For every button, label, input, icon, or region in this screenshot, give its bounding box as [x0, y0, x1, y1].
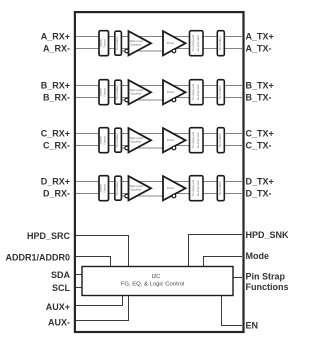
- svg-text:Termination: Termination: [218, 181, 222, 196]
- bubble (driver A): [172, 49, 176, 53]
- wire SDA: [76, 274, 83, 276]
- svg-text:Tx swing and: Tx swing and: [191, 180, 195, 197]
- svg-text:Termination: Termination: [218, 36, 222, 51]
- svg-text:Termination: Termination: [218, 133, 222, 148]
- svg-text:Tx swing and: Tx swing and: [191, 132, 195, 149]
- wire A_RX- input: [76, 48, 130, 50]
- svg-text:Wide-range: Wide-range: [130, 184, 144, 188]
- svg-text:FG, EQ, & Logic Control: FG, EQ, & Logic Control: [121, 282, 185, 288]
- block: Rx signal detect (D lane): [99, 176, 109, 201]
- svg-text:SDA: SDA: [51, 270, 71, 280]
- wire D_TX- output: [163, 193, 242, 195]
- block: Rx signal detect (B lane): [99, 80, 109, 105]
- block: Rx termination (D lane): [115, 176, 122, 200]
- svg-text:Termination: Termination: [115, 85, 119, 100]
- wire SCL: [76, 287, 83, 289]
- svg-text:D_TX-: D_TX-: [246, 189, 272, 199]
- wire D_RX+ to D_TX+: [76, 181, 242, 183]
- wire C_RX+ to C_TX+: [76, 133, 242, 135]
- wire HPD_SRC: [76, 236, 129, 267]
- block: Tx termination (A lane): [217, 31, 224, 56]
- svg-text:ADDR1/ADDR0: ADDR1/ADDR0: [5, 253, 70, 263]
- svg-text:Detect: Detect: [103, 39, 107, 48]
- wire Pin Strap Functions: [233, 277, 242, 279]
- wire AUX-: [76, 296, 129, 321]
- svg-text:B_RX-: B_RX-: [43, 93, 70, 103]
- wire B_RX+ to B_TX+: [76, 85, 242, 87]
- block: Tx swing and de-emphasis (D lane): [190, 176, 204, 201]
- bubble (driver B): [172, 98, 176, 102]
- svg-text:Equalizer: Equalizer: [131, 140, 142, 144]
- op-amp: equalizer (A lane): [129, 31, 152, 55]
- wire AUX+: [76, 296, 123, 306]
- svg-text:Detect: Detect: [103, 184, 107, 193]
- wire B_RX- input: [76, 97, 130, 99]
- wire C_TX- output: [163, 145, 242, 147]
- op-amp: driver (A lane): [163, 31, 186, 55]
- svg-text:A_TX+: A_TX+: [246, 32, 274, 42]
- block: Rx signal detect (A lane): [99, 31, 109, 56]
- inversion bubble (equalizer A): [125, 49, 129, 53]
- inversion bubble (equalizer D): [125, 194, 129, 198]
- svg-text:Functions: Functions: [246, 282, 289, 292]
- bubble (driver D): [172, 194, 176, 198]
- block: Tx swing and de-emphasis (C lane): [190, 128, 204, 153]
- svg-text:A_RX+: A_RX+: [41, 32, 70, 42]
- block: Rx termination (A lane): [115, 31, 122, 55]
- op-amp: driver (D lane): [163, 176, 186, 200]
- svg-text:B_TX+: B_TX+: [246, 81, 274, 91]
- svg-text:Wide-range: Wide-range: [130, 88, 144, 92]
- block: I2C FG EQ & Logic Control U1: [82, 267, 233, 296]
- svg-text:C_RX+: C_RX+: [41, 129, 70, 139]
- svg-text:HPD_SRC: HPD_SRC: [27, 231, 71, 241]
- svg-text:Driver: Driver: [167, 186, 175, 190]
- block: Tx termination (B lane): [217, 80, 224, 105]
- svg-text:Driver: Driver: [167, 90, 175, 94]
- wire D_RX- input: [76, 193, 130, 195]
- svg-text:Termination: Termination: [115, 36, 119, 51]
- svg-text:de-emphasis: de-emphasis: [196, 132, 200, 149]
- wire Mode: [204, 257, 243, 267]
- wire A inter-stage lower: [121, 50, 172, 52]
- wire B_TX- output: [163, 97, 242, 99]
- wire EN: [222, 296, 243, 326]
- wire ADDR1/ADDR0: [76, 257, 111, 267]
- svg-text:Equalizer: Equalizer: [131, 43, 142, 47]
- svg-text:D_RX+: D_RX+: [41, 177, 70, 187]
- op-amp: equalizer (C lane): [129, 128, 152, 152]
- svg-text:I2C: I2C: [152, 274, 161, 280]
- block: Rx termination (C lane): [115, 128, 122, 152]
- inversion bubble (equalizer C): [125, 146, 129, 150]
- block: Rx signal detect (C lane): [99, 128, 109, 153]
- block: Tx swing and de-emphasis (A lane): [190, 31, 204, 56]
- svg-text:Detect: Detect: [103, 88, 107, 97]
- svg-text:B_RX+: B_RX+: [41, 81, 70, 91]
- svg-text:Mode: Mode: [246, 251, 270, 261]
- svg-text:Equalizer: Equalizer: [131, 188, 142, 192]
- svg-text:Termination: Termination: [218, 85, 222, 100]
- svg-text:Driver: Driver: [167, 138, 175, 142]
- op-amp: equalizer (D lane): [129, 176, 152, 200]
- svg-text:SCL: SCL: [52, 283, 71, 293]
- svg-text:Tx swing and: Tx swing and: [191, 84, 195, 101]
- svg-text:C_TX-: C_TX-: [246, 141, 272, 151]
- svg-text:C_RX-: C_RX-: [43, 141, 70, 151]
- svg-text:AUX+: AUX+: [46, 302, 70, 312]
- wire C inter-stage lower: [121, 147, 172, 149]
- svg-text:D_RX-: D_RX-: [43, 189, 70, 199]
- block: Rx termination (B lane): [115, 80, 122, 104]
- svg-text:Driver: Driver: [167, 41, 175, 45]
- wire C_RX- input: [76, 145, 130, 147]
- svg-text:EN: EN: [246, 320, 259, 330]
- svg-text:D_TX+: D_TX+: [246, 177, 274, 187]
- wire HPD_SNK: [189, 235, 243, 267]
- op-amp: driver (B lane): [163, 80, 186, 104]
- op-amp: equalizer (B lane): [129, 80, 152, 104]
- svg-text:HPD_SNK: HPD_SNK: [246, 230, 290, 240]
- svg-text:Tx swing and: Tx swing and: [191, 35, 195, 52]
- block: Tx swing and de-emphasis (B lane): [190, 80, 204, 105]
- inversion bubble (equalizer B): [125, 98, 129, 102]
- svg-text:Termination: Termination: [115, 181, 119, 196]
- svg-text:Termination: Termination: [115, 133, 119, 148]
- op-amp: driver (C lane): [163, 128, 186, 152]
- svg-text:A_RX-: A_RX-: [43, 44, 70, 54]
- wire A_RX+ to A_TX+: [76, 36, 242, 38]
- wire A_TX- output: [163, 48, 242, 50]
- svg-text:Equalizer: Equalizer: [131, 92, 142, 96]
- svg-text:de-emphasis: de-emphasis: [196, 35, 200, 52]
- svg-text:Wide-range: Wide-range: [130, 39, 144, 43]
- svg-text:A_TX-: A_TX-: [246, 44, 272, 54]
- svg-text:de-emphasis: de-emphasis: [196, 180, 200, 197]
- svg-text:B_TX-: B_TX-: [246, 93, 272, 103]
- svg-text:Pin Strap: Pin Strap: [246, 272, 286, 282]
- block: Tx termination (D lane): [217, 176, 224, 201]
- block: Tx termination (C lane): [217, 128, 224, 153]
- bubble (driver C): [172, 146, 176, 150]
- svg-text:C_TX+: C_TX+: [246, 129, 274, 139]
- svg-text:Wide-range: Wide-range: [130, 136, 144, 140]
- svg-text:AUX-: AUX-: [48, 317, 70, 327]
- svg-text:Detect: Detect: [103, 136, 107, 145]
- outer device boundary box: [75, 12, 244, 332]
- wire B inter-stage lower: [121, 99, 172, 101]
- wire D inter-stage lower: [121, 195, 172, 197]
- svg-text:de-emphasis: de-emphasis: [196, 84, 200, 101]
